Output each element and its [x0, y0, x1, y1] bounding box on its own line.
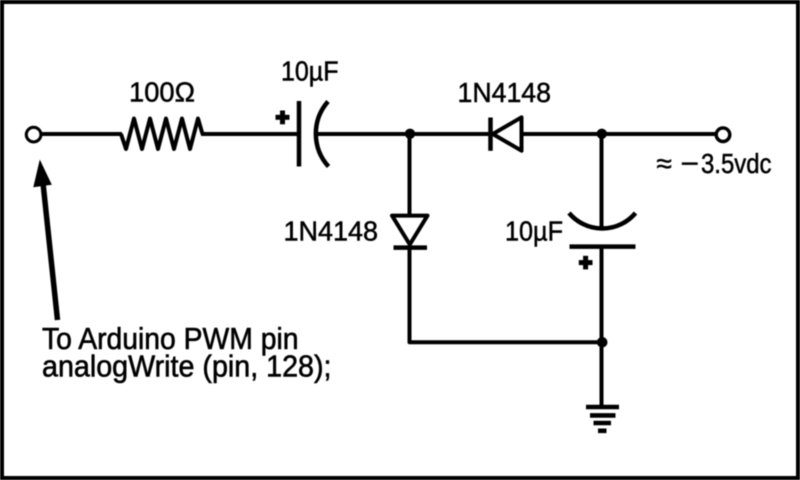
- svg-text:analogWrite (pin, 128);: analogWrite (pin, 128);: [42, 349, 332, 384]
- node A (junction dot): [405, 129, 415, 139]
- diode D1 1N4148 (pointing left): [491, 117, 522, 151]
- wire: C1 to node A: [317, 132, 409, 136]
- wire: node B down to capacitor C2: [600, 134, 604, 229]
- arrow shaft: [43, 183, 58, 320]
- D1 cathode bar: [488, 118, 493, 151]
- capacitor C1 10µF (polarized): [276, 101, 329, 167]
- svg-text:1N4148: 1N4148: [458, 77, 552, 108]
- C1 plus sign: [276, 115, 290, 120]
- C2 negative plate (curved): [569, 213, 636, 229]
- wire: node A to diode D1: [410, 132, 490, 136]
- ground: [586, 407, 619, 431]
- D1 triangle: [493, 117, 522, 150]
- svg-text:10µF: 10µF: [281, 56, 339, 87]
- svg-text:100Ω: 100Ω: [129, 77, 195, 108]
- C2 positive plate (straight): [570, 244, 636, 249]
- arrow to input terminal: [33, 160, 57, 321]
- C2 plus sign: [579, 260, 593, 265]
- wire: D1 to node B: [523, 132, 601, 136]
- resistor R1 100Ω: [121, 119, 203, 150]
- C1 positive plate (straight): [297, 101, 302, 167]
- wire: resistor to capacitor C1: [201, 132, 297, 136]
- svg-text:≈: ≈: [657, 148, 672, 179]
- node B (junction dot): [597, 129, 607, 139]
- svg-text:1N4148: 1N4148: [284, 216, 379, 247]
- wire: D2 down and right to node C: [410, 248, 602, 343]
- wire: input terminal to resistor: [41, 132, 123, 136]
- terminal: output (open circle): [716, 128, 730, 142]
- wire: node A down to diode D2: [408, 134, 412, 216]
- D2 triangle: [392, 216, 428, 245]
- terminal: input (open circle): [26, 127, 41, 142]
- svg-text:−: −: [681, 148, 700, 179]
- C1 negative plate (curved): [316, 102, 329, 167]
- D2 cathode bar: [394, 245, 428, 250]
- node C (junction dot): [597, 337, 608, 348]
- wire: node C down to ground: [600, 342, 604, 407]
- wire: node B to output terminal: [602, 132, 716, 136]
- wire: C2 down to node C: [600, 247, 604, 343]
- svg-text:3.5vdc: 3.5vdc: [701, 148, 772, 179]
- arrow head: [33, 160, 52, 188]
- diode D2 1N4148 (pointing down): [392, 216, 428, 248]
- svg-text:10µF: 10µF: [505, 216, 563, 247]
- capacitor C2 10µF (polarized): [569, 213, 636, 269]
